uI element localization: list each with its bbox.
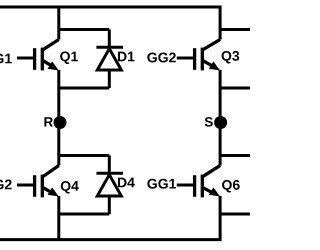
- wire Q3/D3 box bottom stub to right edge: [220, 87, 250, 90]
- wire bottom DC rail with corner into right leg: [0, 196, 220, 240]
- label Q4: [61, 181, 79, 194]
- diode D4: [96, 156, 123, 215]
- wire Q4/D4 box bottom: [59, 213, 110, 216]
- label GG2: [147, 53, 175, 63]
- wire right leg midpoint (Q3 emitter to Q6 collector through node S): [219, 70, 222, 166]
- label S: [205, 117, 213, 127]
- wire left leg midpoint (Q1 emitter to Q4 collector through node R): [57, 70, 60, 166]
- label G1 (clipped at left edge): [0, 54, 12, 64]
- transistor Q4 (IGBT): [17, 166, 59, 198]
- wire left leg collector drop from top rail: [57, 7, 60, 40]
- label D4: [118, 178, 135, 188]
- label G2 (clipped at left edge): [0, 180, 12, 190]
- wire Q1/D1 box top: [59, 28, 110, 31]
- node S junction dot: [214, 116, 227, 129]
- transistor Q1 (IGBT): [17, 40, 59, 71]
- transistor Q6 (IGBT): [177, 166, 220, 198]
- node R junction dot: [54, 116, 67, 129]
- wire Q6/D6 box top stub to right edge: [220, 154, 250, 157]
- label GG1: [147, 179, 176, 189]
- wire Q3/D3 box top stub to right edge: [220, 28, 250, 31]
- wire Q4/D4 box top: [59, 154, 110, 157]
- diode D1: [96, 30, 123, 89]
- wire Q6/D6 box bottom stub to right edge: [220, 213, 250, 216]
- wire Q1/D1 box bottom: [59, 87, 110, 90]
- transistor Q3 (IGBT): [177, 40, 220, 71]
- label D1: [118, 52, 135, 62]
- wire left leg emitter drop to bottom rail: [57, 196, 60, 240]
- label Q3: [222, 51, 240, 64]
- wire top DC rail with corner into right leg: [0, 7, 220, 40]
- label R: [44, 117, 53, 126]
- label Q1: [60, 51, 78, 64]
- label Q6: [222, 180, 240, 193]
